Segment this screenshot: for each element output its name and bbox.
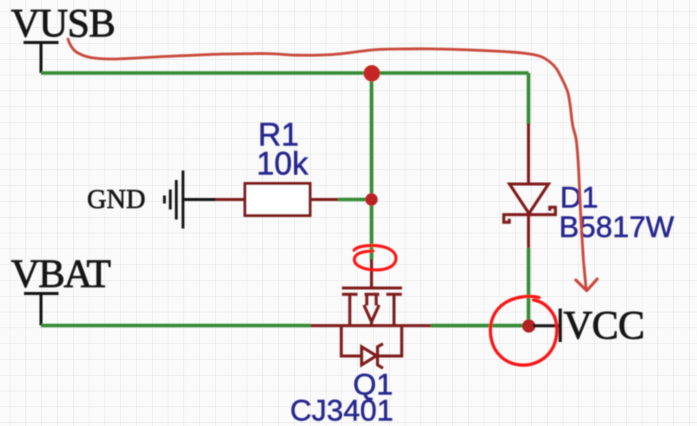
annotation circle at VCC junction: [490, 296, 556, 365]
resistor R1 body: [245, 184, 310, 216]
pin R1 left: [216, 198, 246, 201]
wire R1 to junction (green): [338, 198, 372, 202]
annotation ellipse at gate: [354, 245, 396, 269]
svg-text:GND: GND: [87, 184, 146, 214]
substrate arrow head: [364, 305, 379, 322]
body diode schottky bar: [378, 344, 384, 368]
svg-text:VBAT: VBAT: [11, 251, 111, 296]
diode D1 (schottky): [504, 124, 556, 250]
wire VUSB top horizontal: [41, 71, 529, 75]
pin anode: [527, 124, 530, 185]
transistor Q1 (PMOS): [311, 259, 432, 368]
wire Q1 to VCC junction (green): [431, 324, 529, 328]
junction top: [364, 65, 380, 81]
channel segment middle: [365, 293, 380, 296]
pin gate: [370, 259, 373, 287]
annotation arrowhead: [576, 279, 597, 291]
wire vertical gate net (green): [370, 73, 374, 260]
channel segment right: [386, 293, 402, 296]
wire D1 to junction (green): [527, 248, 531, 322]
pin R1 right: [310, 198, 338, 201]
annotation squiggle line: [68, 39, 586, 288]
substrate arrow tip stem: [370, 320, 373, 326]
body diode loop right: [378, 326, 402, 356]
junction VCC: [522, 319, 535, 332]
anode triangle: [510, 184, 549, 214]
substrate arrow funnel right tick: [375, 294, 378, 305]
gate bar: [342, 287, 402, 290]
port symbol VBAT: [24, 294, 59, 326]
pin source vertical: [393, 294, 396, 325]
svg-text:CJ3401: CJ3401: [290, 395, 393, 426]
ground symbol: [164, 171, 183, 229]
wire top-right vertical (green): [527, 73, 531, 125]
svg-text:B5817W: B5817W: [559, 211, 675, 244]
port symbol VCC: [559, 309, 562, 343]
cathode schottky bar: [504, 207, 556, 222]
pin drain vertical: [348, 294, 351, 325]
wire junction to VCC port (black): [533, 324, 559, 327]
port symbol VUSB: [24, 43, 59, 74]
wire VBAT horizontal (green): [41, 324, 311, 328]
body diode loop left: [341, 326, 361, 356]
svg-text:VCC: VCC: [564, 303, 645, 348]
channel segment left: [342, 293, 358, 296]
svg-text:10k: 10k: [257, 146, 310, 182]
wire Q1 horizontal (component red): [311, 324, 432, 327]
junction R1: [365, 193, 377, 205]
pin cathode: [527, 215, 530, 250]
body diode triangle: [362, 347, 377, 365]
svg-text:VUSB: VUSB: [11, 1, 115, 46]
wire GND to R1 (black): [184, 198, 216, 201]
substrate arrow funnel left tick: [365, 294, 368, 305]
